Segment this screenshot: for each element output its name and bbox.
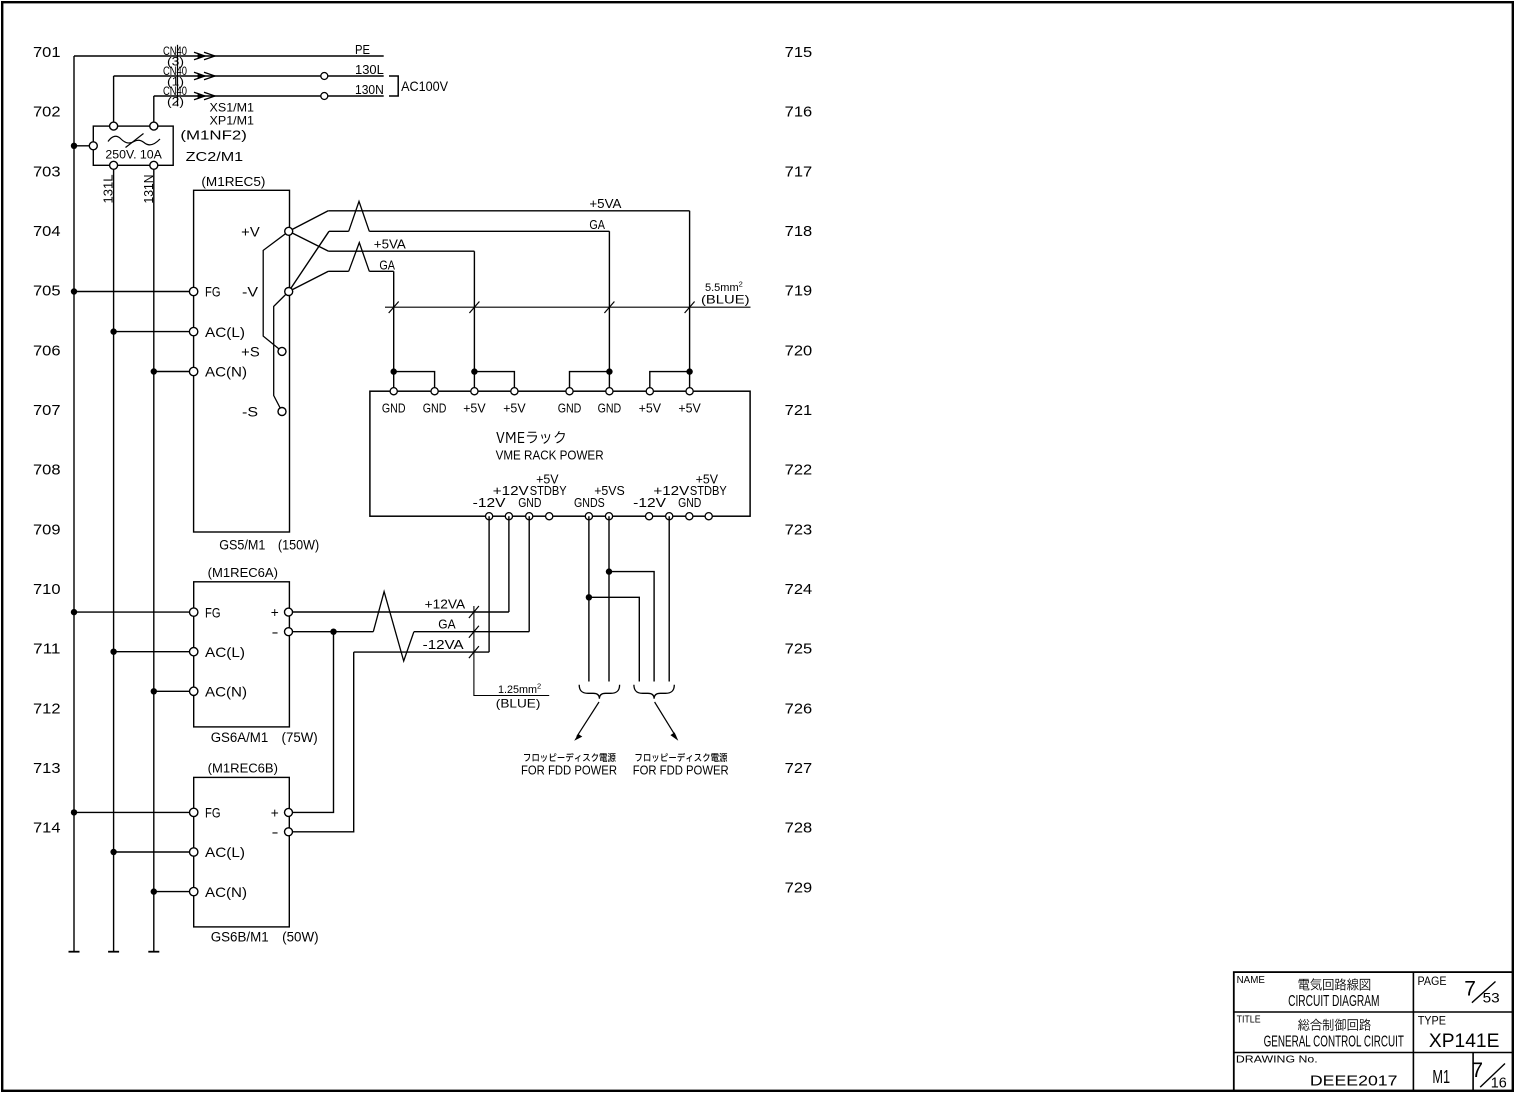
- junction dot 131N / GS6A AC(N): [151, 688, 157, 694]
- bundle zigzag symbol GS6A: [373, 592, 414, 661]
- svg-text:53: 53: [1483, 990, 1500, 1006]
- wire rail to GS5 AC(N): [154, 371, 194, 373]
- power supply GS6B/M1 box (M1REC6B): [194, 777, 290, 927]
- GS5 terminal +V: [285, 227, 293, 235]
- cable slash mark at x=393.7: [389, 302, 399, 314]
- svg-text:722: 722: [785, 462, 813, 479]
- off-page arrow on wire y=76: [198, 73, 205, 79]
- svg-text:701: 701: [33, 44, 61, 61]
- GS5 terminal AC(L): [189, 327, 197, 335]
- bus D GA horizontal right part: [369, 270, 393, 272]
- GS5 sense loop +V to +S: [263, 231, 289, 351]
- svg-text:1.25mm2: 1.25mm2: [498, 681, 541, 696]
- arrow to right FDD: [655, 702, 676, 737]
- svg-text:(M1REC5): (M1REC5): [201, 174, 265, 189]
- svg-text:GENERAL CONTROL CIRCUIT: GENERAL CONTROL CIRCUIT: [1264, 1034, 1404, 1051]
- svg-text:708: 708: [33, 462, 61, 479]
- label floppy disk power JP left: [524, 753, 616, 762]
- svg-text:704: 704: [33, 223, 61, 240]
- svg-text:709: 709: [33, 521, 61, 538]
- cable slash mark at y=652.1: [469, 646, 479, 658]
- wire 131L rail vertical lower: [113, 165, 115, 951]
- svg-text:GND: GND: [423, 400, 447, 415]
- junction dot bus C: [471, 368, 477, 374]
- svg-text:729: 729: [785, 879, 813, 896]
- VME bottom terminal at x=549.2: [546, 513, 553, 520]
- svg-text:725: 725: [785, 641, 813, 658]
- svg-text:+5VA: +5VA: [589, 196, 621, 211]
- title block row3 divider: [1472, 1053, 1474, 1091]
- wire +V to bus A diagonal: [289, 211, 329, 232]
- noise filter terminal bottom N: [150, 161, 158, 169]
- svg-text:+12VA: +12VA: [425, 596, 466, 611]
- branch bus A to +5V: [650, 372, 690, 392]
- branch bus C to +5V: [474, 372, 514, 392]
- wire VME -12V down to -12VA: [488, 516, 490, 652]
- svg-text:7: 7: [1471, 1059, 1483, 1082]
- junction dot 131N / GS5 AC(N): [151, 368, 157, 374]
- wire rail to GS6B AC(N): [154, 891, 194, 893]
- junction dot 131L / GS6B AC(L): [110, 849, 116, 855]
- wire rail to GS6A AC(L): [114, 651, 194, 653]
- title block page slash: [1472, 982, 1496, 1003]
- svg-text:(BLUE): (BLUE): [496, 697, 541, 711]
- cable slash mark at x=474.4: [469, 302, 479, 314]
- bus B vertical down to VME GND: [608, 231, 610, 391]
- svg-text:+5VA: +5VA: [374, 237, 406, 252]
- bus C vertical down to VME +5V: [473, 251, 475, 391]
- svg-text:GNDS: GNDS: [574, 495, 605, 510]
- svg-text:FOR FDD POWER: FOR FDD POWER: [521, 764, 617, 778]
- svg-text:TITLE: TITLE: [1237, 1014, 1261, 1026]
- junction dot +5VS branch: [606, 568, 612, 574]
- svg-text:705: 705: [33, 283, 61, 300]
- svg-text:706: 706: [33, 342, 61, 359]
- VME bottom terminal at x=649.1: [646, 513, 653, 520]
- brace right FDD: [634, 685, 674, 699]
- wire 131N rail vertical lower: [153, 165, 155, 951]
- svg-text:FG: FG: [205, 604, 221, 620]
- label floppy disk power JP right: [636, 753, 728, 762]
- wire VME GND down to GA: [528, 516, 530, 632]
- right row labels 715-729: [785, 44, 813, 896]
- GS6A terminal FG: [190, 608, 198, 616]
- VME bottom terminal at x=508.9: [505, 513, 512, 520]
- wire rail to GS6B FG: [74, 811, 194, 813]
- svg-text:724: 724: [785, 581, 813, 598]
- VME title Japanese VME rack: [496, 431, 565, 444]
- svg-text:131N: 131N: [141, 175, 156, 204]
- svg-text:VME RACK POWER: VME RACK POWER: [496, 447, 604, 462]
- GS6B terminal FG: [190, 808, 198, 816]
- bus D vertical down to VME GND: [393, 271, 395, 391]
- svg-text:130N: 130N: [355, 82, 384, 97]
- pair symbol bus A/B: [349, 201, 370, 231]
- svg-text:GS6B/M1 (50W): GS6B/M1 (50W): [211, 930, 319, 945]
- VME bottom terminal at x=689.3: [686, 513, 693, 520]
- bus B GA horizontal right part: [369, 230, 609, 232]
- svg-text:130L: 130L: [355, 62, 384, 77]
- svg-text:(M1NF2): (M1NF2): [180, 127, 247, 142]
- VME top terminal +5V at x=649.8: [646, 388, 653, 395]
- svg-text:GS5/M1 (150W): GS5/M1 (150W): [219, 538, 319, 553]
- svg-text:718: 718: [785, 223, 813, 240]
- branch GNDS to right FDD: [589, 597, 639, 681]
- branch bus B to GND: [570, 372, 610, 392]
- off-page arrow on wire y=56: [198, 53, 205, 59]
- svg-text:728: 728: [785, 820, 813, 837]
- bus A +5VA horizontal: [328, 210, 689, 212]
- wire 131L rail vertical upper: [113, 76, 115, 126]
- wire GS6A + to +12VA: [289, 611, 509, 613]
- rail end tick 131L: [108, 951, 119, 953]
- svg-text:+: +: [271, 604, 279, 620]
- svg-text:7: 7: [1464, 978, 1476, 1001]
- svg-text:FOR FDD POWER: FOR FDD POWER: [633, 764, 729, 778]
- cable slash mark at x=689.6: [685, 302, 695, 314]
- svg-text:721: 721: [785, 402, 813, 419]
- svg-text:-12V: -12V: [633, 495, 666, 510]
- wire GS6B + up to GA junction: [289, 632, 334, 813]
- title block sheet slash: [1480, 1064, 1505, 1088]
- svg-text:DEEE2017: DEEE2017: [1310, 1073, 1398, 1090]
- svg-text:717: 717: [785, 163, 813, 180]
- wire rail to GS6A AC(N): [154, 690, 194, 692]
- svg-text:726: 726: [785, 700, 813, 717]
- svg-text:711: 711: [33, 641, 61, 658]
- svg-text:-V: -V: [242, 284, 259, 300]
- svg-text:ZC2/M1: ZC2/M1: [186, 149, 244, 164]
- svg-text:GND: GND: [558, 400, 582, 415]
- svg-text:AC(N): AC(N): [205, 364, 247, 380]
- wire rail to GS5 FG: [74, 291, 194, 293]
- svg-text:(M1REC6B): (M1REC6B): [208, 761, 278, 776]
- title block title Japanese general control circuit: [1298, 1019, 1371, 1031]
- svg-text:707: 707: [33, 402, 61, 419]
- title block outer box: [1234, 972, 1513, 1091]
- svg-text:DRAWING No.: DRAWING No.: [1236, 1053, 1318, 1065]
- svg-text:+5V: +5V: [463, 400, 486, 415]
- svg-text:GND: GND: [598, 400, 622, 415]
- GS5 terminal -S: [278, 408, 286, 416]
- GS6B terminal AC(L): [190, 848, 198, 856]
- junction dot PE rail / GS6B FG: [71, 809, 77, 815]
- svg-text:-12V: -12V: [473, 495, 506, 510]
- rail end tick PE: [69, 951, 80, 953]
- svg-text:(M1REC6A): (M1REC6A): [208, 565, 278, 580]
- svg-text:AC(N): AC(N): [205, 684, 247, 700]
- GS6A terminal AC(N): [190, 687, 198, 695]
- svg-text:GND: GND: [518, 495, 541, 510]
- svg-text:XP141E: XP141E: [1429, 1031, 1500, 1052]
- terminal circle on 130N: [321, 93, 328, 100]
- title block name Japanese circuit diagram: [1299, 978, 1371, 990]
- svg-text:715: 715: [785, 44, 813, 61]
- wire VME +5VS down to FDD: [608, 516, 610, 681]
- VME bottom terminal at x=669.2: [666, 513, 673, 520]
- junction dot GNDS branch: [586, 594, 592, 600]
- VME top terminal GND at x=393.7: [390, 388, 397, 395]
- power supply GS5/M1 box (M1REC5): [194, 190, 290, 532]
- noise filter ZC2/M1 box: [93, 126, 173, 165]
- wire rail to noise filter left terminal: [74, 145, 93, 147]
- brace left FDD: [579, 685, 619, 699]
- svg-text:+: +: [271, 804, 279, 820]
- title block row divider 2: [1234, 1052, 1513, 1054]
- VME bottom terminal at x=489.1: [486, 513, 493, 520]
- wire VME +12V down to +12VA: [508, 516, 510, 612]
- cable slash mark at x=609.4: [604, 302, 614, 314]
- VME top terminal +5V at x=514.4: [511, 388, 518, 395]
- VME top terminal GND at x=569.5: [566, 388, 573, 395]
- svg-text:GA: GA: [438, 616, 456, 631]
- pair symbol bus C/D: [349, 243, 370, 272]
- svg-text:713: 713: [33, 760, 61, 777]
- svg-text:AC(L): AC(L): [205, 844, 245, 860]
- wire 130N horizontal: [154, 95, 384, 97]
- AC100V bracket: [389, 76, 398, 96]
- svg-text:M1: M1: [1432, 1067, 1450, 1087]
- junction dot 131N / GS6B AC(N): [151, 888, 157, 894]
- junction dot PE rail / GS5 FG: [71, 288, 77, 294]
- wire 130L horizontal: [114, 75, 384, 77]
- svg-text:+S: +S: [241, 344, 260, 360]
- wire +V to bus C diagonal: [289, 231, 329, 251]
- wire PE left rail vertical: [73, 56, 75, 952]
- junction dot 131L / GS6A AC(L): [110, 649, 116, 655]
- rail end tick 131N: [148, 951, 159, 953]
- VME top terminal +5V at x=474.4: [471, 388, 478, 395]
- terminal circle on 130L: [321, 73, 328, 80]
- left row labels 701-714: [33, 44, 61, 837]
- svg-text:-S: -S: [242, 404, 258, 420]
- GS5 terminal FG: [189, 287, 197, 295]
- svg-text:CIRCUIT DIAGRAM: CIRCUIT DIAGRAM: [1288, 993, 1379, 1010]
- svg-text:+5V: +5V: [503, 400, 526, 415]
- wire GA right part: [414, 631, 529, 633]
- svg-text:+5V: +5V: [639, 400, 662, 415]
- svg-text:703: 703: [33, 163, 61, 180]
- wire -V to bus B diagonal: [289, 231, 329, 291]
- title block column divider: [1412, 972, 1414, 1091]
- connector CN40 body line: [177, 45, 179, 107]
- svg-text:131L: 131L: [101, 175, 116, 204]
- svg-text:GA: GA: [589, 217, 605, 232]
- GS6B terminal AC(N): [190, 887, 198, 895]
- noise filter terminal top N: [150, 122, 158, 130]
- junction dot bus D: [391, 368, 397, 374]
- noise filter terminal bottom L: [110, 161, 118, 169]
- svg-text:723: 723: [785, 521, 813, 538]
- svg-text:702: 702: [33, 104, 61, 121]
- VME top terminal +5V at x=689.6: [686, 388, 693, 395]
- svg-text:GND: GND: [382, 400, 406, 415]
- branch bus D to GND: [394, 372, 435, 392]
- svg-text:GA: GA: [379, 257, 395, 272]
- wire 131N rail vertical upper: [153, 96, 155, 126]
- svg-text:FG: FG: [205, 284, 221, 300]
- junction dot bus B: [606, 368, 612, 374]
- title block row divider 1: [1234, 1011, 1513, 1013]
- svg-text:-: -: [272, 624, 279, 640]
- wire GS6B - up to -12VA: [289, 652, 354, 832]
- GS6A terminal AC(L): [190, 648, 198, 656]
- svg-text:XP1/M1: XP1/M1: [210, 113, 255, 127]
- svg-text:(BLUE): (BLUE): [701, 292, 750, 306]
- bus A vertical down to VME +5V: [689, 211, 691, 391]
- noise filter terminal left FG: [89, 142, 97, 150]
- off-page arrow on wire y=96: [198, 93, 205, 99]
- junction dot bus A: [686, 368, 692, 374]
- cable note leader 5.5mm2: [385, 306, 751, 308]
- wire PE horizontal: [74, 55, 384, 57]
- GS5 terminal -V: [285, 288, 293, 296]
- branch +5VS to right FDD: [609, 572, 654, 682]
- svg-text:716: 716: [785, 104, 813, 121]
- junction dot GA / GS6B +: [330, 629, 336, 635]
- junction dot PE rail / filter: [71, 143, 77, 149]
- VME bottom terminal at x=609.0: [605, 513, 612, 520]
- svg-text:AC(L): AC(L): [205, 644, 245, 660]
- svg-text:PE: PE: [355, 42, 370, 57]
- GS6A terminal -: [285, 628, 293, 636]
- svg-text:GND: GND: [678, 495, 701, 510]
- junction dot PE rail / GS6A FG: [71, 609, 77, 615]
- VME rack power box: [370, 391, 750, 516]
- VME top terminal GND at x=434.6: [431, 388, 438, 395]
- cable slash mark at y=631.7: [469, 626, 479, 638]
- wire -12VA horizontal: [354, 651, 489, 653]
- svg-text:714: 714: [33, 820, 61, 837]
- bus B GA horizontal left part: [329, 230, 349, 232]
- svg-text:NAME: NAME: [1237, 974, 1265, 986]
- GS6B terminal +: [285, 808, 293, 816]
- junction dot 131L / GS5 AC(L): [110, 328, 116, 334]
- GS6B terminal -: [285, 828, 293, 836]
- svg-text:AC(L): AC(L): [205, 324, 245, 340]
- noise filter slash: [126, 134, 144, 148]
- wire GS6A - GA left part: [289, 631, 374, 633]
- VME top terminal GND at x=609.4: [606, 388, 613, 395]
- svg-text:-12VA: -12VA: [423, 637, 464, 652]
- GS5 terminal +S: [278, 347, 286, 355]
- svg-text:AC100V: AC100V: [401, 78, 449, 94]
- svg-text:16: 16: [1491, 1075, 1507, 1091]
- noise filter terminal top L: [110, 122, 118, 130]
- svg-text:710: 710: [33, 581, 61, 598]
- cable slash mark at y=612: [469, 606, 479, 618]
- bus D GA horizontal left part: [328, 270, 348, 272]
- svg-text:PAGE: PAGE: [1418, 976, 1447, 988]
- svg-text:TYPE: TYPE: [1418, 1016, 1447, 1028]
- wire rail to GS6B AC(L): [114, 851, 194, 853]
- cable note leader 1.25mm2: [474, 606, 549, 696]
- svg-text:250V. 10A: 250V. 10A: [105, 149, 162, 161]
- svg-text:720: 720: [785, 342, 813, 359]
- VME bottom terminal at x=588.9: [585, 513, 592, 520]
- arrow to left FDD: [577, 702, 599, 737]
- GS6A terminal +: [285, 608, 293, 616]
- power supply GS6A/M1 box (M1REC6A): [194, 582, 290, 727]
- svg-text:719: 719: [785, 283, 813, 300]
- wire VME +12V2 down to FDD: [668, 516, 670, 681]
- wire rail to GS5 AC(L): [114, 331, 194, 333]
- VME bottom terminal at x=529.2: [526, 513, 533, 520]
- GS5 sense loop -V to -S: [274, 292, 289, 412]
- wire -V to bus D diagonal: [289, 271, 329, 291]
- svg-text:GS6A/M1 (75W): GS6A/M1 (75W): [211, 730, 318, 745]
- wire VME GNDS down to FDD: [588, 516, 590, 681]
- GS5 terminal AC(N): [189, 367, 197, 375]
- VME bottom terminal at x=708.7: [705, 513, 712, 520]
- bus C +5VA horizontal: [329, 250, 475, 252]
- svg-text:FG: FG: [205, 805, 221, 821]
- svg-text:727: 727: [785, 760, 813, 777]
- svg-text:712: 712: [33, 700, 61, 717]
- wire rail to GS6A FG: [74, 611, 194, 613]
- svg-text:AC(N): AC(N): [205, 884, 247, 900]
- noise filter wave symbol: [108, 136, 160, 145]
- svg-text:-: -: [272, 824, 279, 840]
- svg-text:+5V: +5V: [678, 400, 701, 415]
- svg-text:+V: +V: [241, 223, 260, 239]
- svg-text:(2): (2): [167, 95, 184, 109]
